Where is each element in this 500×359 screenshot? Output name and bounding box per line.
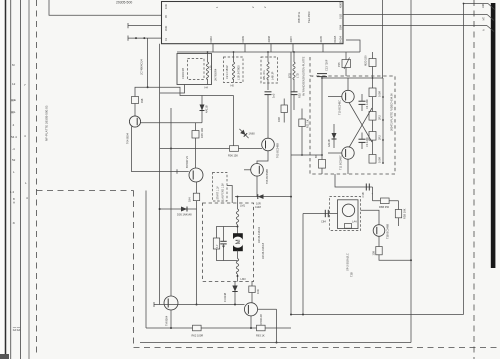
wire to IC pin 01 [128,37,162,39]
capacitor C4 leads [361,94,363,101]
capacitor C05 plates [265,91,272,93]
base rail wire left [154,304,245,306]
resistor R1B body [249,286,255,293]
svg-text:L7D: L7D [296,73,300,78]
supply rail under IC [177,51,360,53]
resistor R08 body [281,105,287,113]
resistor R63 body [257,325,266,331]
transistor T10 [342,90,354,102]
svg-text:L4B JP: L4B JP [271,71,275,80]
diode D02 diagonal [238,127,251,140]
long vertical wire right column [410,0,412,343]
transistor T3B [373,225,385,237]
wire into box left mid [291,154,322,156]
feed wire into motor box [237,197,239,209]
multivibrator left rail [321,78,323,160]
transistor T08 [164,296,178,310]
svg-text:C84: C84 [321,220,326,224]
transistor T11 base bar [345,149,347,157]
long vertical wire from IC corner [159,44,161,305]
resistor R05 bottom lead to T03 [195,138,197,168]
wire T06 emitter to motor feed [235,196,291,198]
svg-text:R05 10K: R05 10K [200,128,204,138]
transistor T10 collector lead [347,78,349,90]
node rail-L21 [233,51,235,53]
wire to IC pin 05 [128,25,162,27]
long vertical wire far right [463,4,465,315]
transistor T3B emitter lead [378,236,380,246]
node rail-L20 [207,51,209,53]
resistor R11 body [299,119,305,127]
choke bottom lead [237,274,239,281]
node right rail b [382,119,384,121]
trimmer P05 body [342,60,351,68]
vertical feed to R06 [233,96,235,149]
bottom left corner dark smudge [0,354,9,359]
wire down to R3B [398,201,400,210]
wire to diode D05 [160,208,197,210]
transistor T09 [244,303,257,316]
transistor T03 [189,168,203,182]
AV boundary dashed segment above box [309,57,311,76]
emitter wire junction tick [176,169,178,173]
node emitter rail2 [276,342,278,344]
resistor M2D above box [369,59,376,67]
node right rail a [382,96,384,98]
transistor T11 emitter lead [347,159,349,174]
svg-text:T3B BC546B: T3B BC546B [386,224,390,239]
wire R6B row [373,200,399,202]
coil L20 [206,62,208,80]
svg-text:AV RANDSENSING/TEN-PLATTE: AV RANDSENSING/TEN-PLATTE [302,56,306,96]
connector arrow A [487,26,494,32]
svg-text:R63 1K: R63 1K [256,334,265,338]
transistor T06 base bar [258,166,260,174]
node right rail d [382,162,384,164]
T08 bottom lead [170,310,172,328]
svg-text:R3B 10K: R3B 10K [403,208,407,219]
IC pin stub 10 [212,44,214,52]
solenoid winding block [345,224,352,229]
diode D01 [201,96,203,123]
svg-text:R08: R08 [277,117,281,122]
svg-text:L 4: L 4 [10,190,14,194]
dashed board boundary right vertical [473,0,475,359]
svg-text:R06 15K: R06 15K [228,154,238,158]
capacitor CM1 bottom lead [223,244,225,261]
resistor R44 bottom lead [196,201,198,209]
transistor T06 emitter down [256,176,258,197]
node motor bottom [237,275,239,277]
svg-text:LAUFEND 1.3V: LAUFEND 1.3V [222,183,225,200]
page left white margin [0,0,4,359]
svg-text:43/07: 43/07 [289,35,293,42]
resistor M2D top lead [372,52,374,59]
cross-coupling wire 2 [349,108,372,148]
svg-text:BC546 V3: BC546 V3 [185,156,189,168]
transistor T04 base wire right [141,122,203,124]
resistor R4B body [376,247,382,255]
svg-text:TM 8504: TM 8504 [165,315,169,326]
svg-text:NF-PLATTE 29305-500.03: NF-PLATTE 29305-500.03 [45,105,49,141]
transistor T10 base bar [345,93,347,101]
capacitor C3 plates [359,138,366,140]
svg-text:M: M [236,239,242,244]
wire under shield can to vertical [160,85,185,94]
measurement callout box [213,173,228,202]
resistor R08 leads [283,99,285,106]
node input drop [302,314,304,316]
transistor T05 [262,138,275,151]
svg-text:H4: H4 [205,86,209,90]
svg-text:▤E: ▤E [11,98,16,102]
IC pin stub 5 [322,44,324,52]
junction node on wire B 2 [143,37,145,39]
motor M1 body block [233,233,243,251]
svg-text:C4 120F: C4 120F [365,99,369,109]
svg-text:45/09: 45/09 [339,1,343,8]
dashed box around L21 [224,57,244,83]
resistor R1B motor branch lead [251,282,253,287]
resistor R11 lead bottom [301,127,303,156]
svg-text:10D: 10D [164,4,168,9]
svg-text:C1D/C1B: C1D/C1B [181,68,185,79]
node box left mid [321,154,323,156]
svg-text:15K: 15K [372,251,376,256]
node rail-L7D [293,51,295,53]
capacitor C35 plates [291,91,298,93]
svg-text:10R: 10R [256,289,260,294]
transistor T08 base bar [167,299,169,308]
resistor RM bottom wire [217,249,238,261]
coil L21 top lead [233,52,235,62]
node rail1 T08 [170,327,172,329]
node motor top [237,226,239,228]
dashed motor module box [203,203,254,282]
long vertical wire right mid [290,52,292,315]
transistor T11 [342,147,354,159]
svg-text:54 4: 54 4 [11,135,17,139]
resistor R44 [193,193,199,200]
svg-text:L20: L20 [209,65,213,70]
coil L7D bottom lead [293,79,295,92]
transistor T06 [251,164,264,177]
T09 emitter wire right [258,308,277,310]
vertical wire T09 emitter down [276,309,278,342]
svg-text:34726-138.02: 34726-138.02 [257,226,261,243]
top wire to connector A91 [464,3,489,5]
node right rail c [382,139,384,141]
svg-text:03/09: 03/09 [241,35,245,42]
svg-text:2R2: 2R2 [378,115,382,120]
IC pin stub 9 [244,44,246,52]
svg-text:SP-2-302A,B,C: SP-2-302A,B,C [346,253,350,271]
module input wire with C84 [303,213,338,215]
dashed board boundary bottom horizontal [134,347,500,349]
svg-text:M2D 520: M2D 520 [364,55,368,66]
node feed right [290,196,292,198]
svg-text:938: 938 [140,98,144,103]
svg-text:34726-018.18: 34726-018.18 [261,242,265,259]
dashed board boundary step vertical [133,191,135,348]
motor M1 rotor circle [232,237,243,248]
svg-text:T05 BC548B: T05 BC548B [276,143,280,158]
transistor T05 base bar [265,141,267,149]
coil L7D top lead [293,52,295,62]
svg-text:START 1.1V: START 1.1V [217,186,220,200]
resistor R05 top lead [195,123,197,131]
svg-text:265472-PLATTE 'VIDEO'-034.00: 265472-PLATTE 'VIDEO'-034.00 [390,93,394,131]
svg-text:BC546-08: BC546-08 [259,314,263,326]
svg-text:L1B JH79D5: L1B JH79D5 [237,65,241,80]
coil L21 [232,62,234,80]
svg-text:12: 12 [12,82,16,86]
base wire to T05 [160,148,262,150]
svg-text:100R: 100R [378,157,382,163]
svg-text:A: A [13,201,15,205]
svg-text:T10 BC548C: T10 BC548C [338,100,342,115]
svg-text:100R: 100R [378,91,382,97]
rail wire from IC area down into box [382,0,384,78]
svg-text:B-054: B-054 [339,36,343,43]
IC corner pin route to P05 [346,40,360,52]
svg-text:D05 1N4148: D05 1N4148 [177,213,192,217]
module input drop wire [302,214,304,315]
suppression branch top wire [217,227,238,239]
transistor T04 base bar [136,118,138,125]
capacitor C1B plates [365,184,367,191]
trimmer P05 bottom lead [345,68,347,77]
IC U1 body [162,2,344,44]
svg-text:52: 52 [12,158,16,162]
svg-text:R11 1K: R11 1K [306,119,310,128]
resistor R1B bottom lead [251,293,253,303]
trimmer P05 wiper [344,58,350,70]
resistor R38 bottom lead [134,104,136,117]
capacitor C05 bottom lead to T05 [267,95,269,139]
node feed junction [237,196,239,198]
svg-text:C3 120F: C3 120F [365,137,369,147]
coil L4B top lead [267,52,269,62]
wire from top edge into IC pin [49,0,162,15]
callout pointer wire [227,186,232,204]
vertical wire T08 collector riser [170,108,172,296]
transistor T03 base bar [192,171,194,180]
capacitor C35 bottom lead [293,95,295,110]
bottom return rail to right edge [291,314,464,316]
base rail terminal tick [153,302,155,307]
svg-text:4A11B: 4A11B [205,105,209,113]
solenoid inner frame [338,200,359,229]
svg-text:1N60: 1N60 [249,132,256,136]
wire from multivibrator to C1B [335,174,373,187]
capacitor CM1 branch lead [223,227,225,242]
resistor R3B body [395,210,401,218]
svg-text:29305-500: 29305-500 [116,1,132,5]
svg-text:1N4148: 1N4148 [223,292,227,302]
resistor R05 [192,131,199,139]
svg-text:T06 BC558B: T06 BC558B [265,169,269,184]
node return rail left [290,314,292,316]
T09 bottom lead [250,316,252,328]
choke coil top [236,209,239,225]
node R4B to vertical [410,259,412,261]
svg-text:LM3: LM3 [241,277,247,281]
svg-text:10R: 10R [256,202,261,206]
vertical wire to bottom rail [145,191,147,329]
bottom rail 1 [146,327,291,329]
IC pin stub 7 [292,44,294,52]
node rail1 T09 [250,327,252,329]
choke top bottom lead [237,225,239,234]
wire terminal tick A [127,23,129,28]
resistor R1B left [319,160,326,169]
svg-text:4148: 4148 [255,205,261,209]
node top rail left [321,77,323,79]
transistor T10 base lead [328,96,342,98]
svg-text:A91: A91 [481,3,485,8]
svg-text:▤L: ▤L [11,110,16,114]
coil L4B [267,62,269,80]
svg-text:H0: H0 [231,84,235,88]
left board edge line 4 [28,0,30,359]
module output wire [361,210,380,225]
wire junction drop to T04 network [147,38,149,87]
diode D05 [181,207,187,212]
node base rail junction [196,304,198,306]
multivibrator right rail [382,78,384,163]
svg-text:01/2: 01/2 [339,13,343,19]
resistor R62 body [193,325,202,331]
svg-text:A: A [482,29,486,31]
capacitor CM1 polarity mark [222,246,225,248]
dashed box around L4B [261,57,278,83]
svg-text:1n5: 1n5 [272,93,276,98]
svg-text:LM1: LM1 [240,204,246,208]
transistor T03 emitter lead down [196,182,198,193]
resistor R16 [369,132,376,141]
IC pin stub 8 [270,44,272,52]
svg-text:T2B: T2B [350,272,354,277]
dashed solenoid module box [330,197,361,231]
connector arrow A91 [488,4,495,10]
resistor R06 [230,146,239,152]
svg-text:R35: R35 [298,93,302,98]
multivibrator top rail [322,77,383,79]
svg-text:1K4: 1K4 [188,197,192,202]
node top wire junction [463,3,465,5]
svg-text:T04 8504: T04 8504 [126,132,130,144]
capacitor C84 plates [324,210,326,217]
bottom rail 2 [140,342,411,344]
svg-text:M7: M7 [482,16,486,20]
resistor R17 lead [372,120,374,131]
svg-text:41/05: 41/05 [319,35,323,42]
wire terminal tick B [127,36,129,41]
coil L20 top lead [207,52,209,62]
svg-text:JC74804C/J4: JC74804C/J4 [140,59,144,75]
solenoid transistor T1B [342,204,354,216]
svg-text:R6B 350: R6B 350 [379,205,390,209]
cross-coupling wire 1 [349,103,372,143]
transistor T05 emitter wire [257,151,268,164]
transistor T04 emitter wire down and right [132,127,189,172]
resistor RM 4.7 body [213,238,219,249]
resistor R3B bottom lead [398,218,400,226]
svg-text:4BL 47n: 4BL 47n [262,70,266,80]
resistor M2D bottom lead [372,67,374,89]
connector arrow M7 [487,14,494,20]
trimmer P05 top lead [345,52,347,60]
node D05 wire left [159,208,161,210]
resistor R17 [369,112,376,121]
svg-text:43/08: 43/08 [267,35,271,42]
svg-text:-4: -4 [12,147,15,151]
resistor R1B bottom lead [321,168,323,174]
coil L21 bottom lead [233,79,235,83]
transistor T11 base lead [328,152,342,154]
diode D4 [333,124,335,148]
svg-text:03/10: 03/10 [209,35,213,42]
resistor R15 [369,88,376,97]
IC right pin wire A [343,25,487,27]
node base rail diode [234,304,236,306]
svg-text:LA4: LA4 [352,220,357,224]
diode D06 on feed wire [258,194,264,199]
dashed board boundary left vertical [36,0,38,355]
svg-text:C21 C1B1Z: C21 C1B1Z [225,65,229,79]
right page edge black bar [491,3,496,268]
resistor R18 [369,155,376,164]
transistor T04 [129,116,140,127]
node top rail mid [372,77,374,79]
svg-text:R62 100R: R62 100R [192,334,204,338]
left board edge line 3 [20,0,22,359]
transistor T06 base stub [244,169,251,171]
svg-text:TEA 4503: TEA 4503 [307,11,311,23]
svg-text:05B 4T1L: 05B 4T1L [297,11,301,23]
diode D09 branch below motor box [234,282,236,305]
svg-text:4A11B: 4A11B [327,139,331,147]
IC right pin wire M7 [343,13,487,15]
dashed board boundary step horizontal [37,190,134,192]
shield can box around L20 [177,54,212,85]
svg-text:P05: P05 [337,62,341,67]
dashed core box inside L20 can [188,59,205,80]
left board edge line 2 [10,0,12,359]
capacitor CM1 plates [220,240,226,242]
svg-text:2R2: 2R2 [378,135,382,140]
coil L7D [293,62,295,80]
svg-text:C13 720F: C13 720F [325,59,329,71]
wire down to R6B [372,187,374,201]
capacitor C13 plates [317,73,327,75]
node rail-L4B [267,51,269,53]
node riser base wire [170,148,172,150]
resistor R11 lead top [301,109,303,120]
resistor R38 [132,97,139,104]
svg-text:61/1B: 61/1B [333,35,337,42]
svg-text:03/4: 03/4 [339,24,343,30]
coil L4B bottom lead [267,79,269,90]
resistor R15 lead [372,97,374,112]
capacitor C3 leads [361,133,363,140]
node T04 top junction [147,86,149,88]
resistor R16 lead [372,140,374,154]
wire T04 collector horizontal [135,87,234,96]
transistor T3B base bar [376,227,378,234]
vertical wire R44 node down to T08 base rail [196,209,198,305]
